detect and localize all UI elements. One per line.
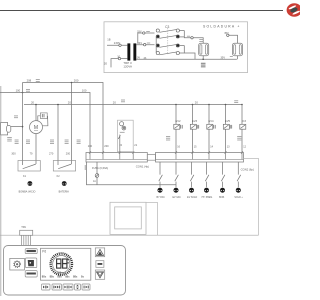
label SOLD + <box>234 197 243 199</box>
wire color label <box>26 140 30 144</box>
harness wire to panel <box>0 234 259 236</box>
wire label 14 <box>210 145 213 148</box>
junction node <box>57 104 59 106</box>
wire bus 208/200 <box>23 83 104 153</box>
svg-text:88s: 88s <box>50 275 55 279</box>
wire color label <box>15 140 19 144</box>
value label 35V <box>221 56 226 60</box>
svg-text:88s: 88s <box>73 275 78 279</box>
svg-text:200: 200 <box>66 152 71 156</box>
wire color label <box>36 79 40 82</box>
wire drop 270 <box>57 105 59 161</box>
logo <box>287 3 302 17</box>
svg-text:BOB.: BOB. <box>219 197 225 199</box>
weld bar resistor 2 <box>233 43 243 56</box>
svg-text:270: 270 <box>49 152 54 156</box>
label SOLDADURA + <box>203 25 241 29</box>
capacitor C motor <box>38 113 48 126</box>
connector bridge <box>147 155 155 161</box>
output switch BY PAC <box>159 162 163 187</box>
svg-text:CON1 (4p): CON1 (4p) <box>136 165 149 169</box>
connector TPA <box>20 230 33 245</box>
wire label 21 <box>134 143 137 147</box>
connector terminal HT PRES <box>204 188 209 193</box>
pressure switch unit box <box>118 120 134 152</box>
wire weld bar 2 to 0V <box>237 56 239 60</box>
wire label 270 <box>49 152 54 156</box>
junction node <box>22 126 24 128</box>
wire secondary 0V common <box>136 58 237 60</box>
contactor label C3 <box>165 25 169 29</box>
wire color label <box>77 140 81 144</box>
pin terminal <box>191 37 193 39</box>
pin terminal primary bottom <box>118 57 120 59</box>
wire label 12 <box>243 145 246 148</box>
contactor C3 contacts <box>156 28 179 55</box>
wire label 100 <box>82 88 87 92</box>
svg-text:BATERIA: BATERIA <box>59 190 70 193</box>
wire label 208 <box>27 79 32 83</box>
svg-text:EV SOLD: EV SOLD <box>187 197 197 199</box>
component label <box>7 137 12 141</box>
wire label 200 <box>66 152 71 156</box>
svg-text:1A: 1A <box>93 180 96 183</box>
svg-text:300: 300 <box>11 152 16 156</box>
wire label 20 <box>68 101 72 105</box>
wire label 20 <box>31 101 35 105</box>
svg-text:20: 20 <box>113 100 117 104</box>
connector terminal bateria <box>62 181 67 186</box>
pin label 1B <box>107 37 110 41</box>
pin terminal soldadura <box>227 34 229 36</box>
solenoid valve EV5 <box>223 104 231 153</box>
svg-text:100: 100 <box>82 88 87 92</box>
wire drop 200 <box>71 83 73 161</box>
wire C3 to weld bar 1 <box>179 31 203 44</box>
svg-text:20: 20 <box>31 101 35 105</box>
svg-text:0V: 0V <box>137 56 140 60</box>
svg-text:100: 100 <box>88 144 93 148</box>
svg-text:SOLD +: SOLD + <box>234 197 243 199</box>
svg-text:C3: C3 <box>242 119 246 123</box>
weld bar resistor 1 <box>199 43 209 56</box>
value label 35V <box>224 31 229 35</box>
connector terminal bomba <box>28 181 33 186</box>
page left border <box>0 86 2 296</box>
wire label 200 <box>104 144 109 148</box>
label TPA <box>21 225 26 229</box>
label BATERIA <box>59 190 70 193</box>
value label 230V <box>114 41 121 45</box>
wire label 100 <box>16 89 21 93</box>
connector terminal EV VAC <box>174 188 179 193</box>
terminal strip CON2 <box>156 151 244 162</box>
junction <box>202 58 204 60</box>
fuse rating label <box>93 180 96 183</box>
wire C3 lower pole to 0V <box>179 46 195 60</box>
value label 24V <box>138 41 143 45</box>
svg-text:SOLDADURA +: SOLDADURA + <box>203 25 241 29</box>
pressure switch sensor <box>118 122 126 139</box>
label C3 <box>242 119 246 123</box>
junction node 100 <box>22 92 24 94</box>
pin terminal secondary 33V <box>143 32 145 34</box>
button ok <box>96 261 104 268</box>
wire bus 100 <box>0 93 90 153</box>
svg-text:200: 200 <box>104 144 109 148</box>
contactor coil C3 <box>240 104 246 153</box>
svg-text:TPA: TPA <box>21 225 26 229</box>
label EV4 <box>208 119 214 123</box>
gauge dial <box>51 253 72 274</box>
svg-text:33V: 33V <box>137 29 142 33</box>
wire label 100 <box>88 144 93 148</box>
svg-text:CON2 (6p): CON2 (6p) <box>241 167 254 171</box>
wire motor feed <box>35 105 37 121</box>
node label 20 <box>104 61 108 65</box>
wire color label <box>65 140 69 144</box>
control panel TP <box>4 246 126 296</box>
wire bus 20 <box>24 104 242 106</box>
vacuum chamber lid <box>110 202 146 234</box>
pin label 10 <box>117 54 120 58</box>
terminal strip CON1 <box>86 151 147 162</box>
display window <box>41 248 91 280</box>
svg-text:20: 20 <box>195 100 199 104</box>
svg-text:100: 100 <box>16 89 21 93</box>
svg-text:24V: 24V <box>138 41 143 45</box>
value label 0V <box>137 56 140 60</box>
wire label 79 <box>30 152 33 156</box>
svg-text:208: 208 <box>27 79 32 83</box>
relay contact K1 <box>18 161 40 172</box>
label BOMBA VACIO <box>19 190 36 193</box>
output switch SOLD <box>237 162 241 187</box>
wire color label <box>14 116 18 119</box>
button VAC <box>25 258 36 268</box>
output switch HT PRES <box>205 162 209 187</box>
transformer TRP3 <box>127 43 136 60</box>
wire label 200 <box>74 79 79 83</box>
solenoid valve EV2 <box>174 104 182 153</box>
svg-text:88s: 88s <box>42 275 47 279</box>
label CON1 (4p) <box>136 165 149 169</box>
svg-text:C3: C3 <box>165 25 169 29</box>
value label 33V <box>137 29 142 33</box>
svg-text:20: 20 <box>68 101 72 105</box>
svg-text:88s: 88s <box>65 275 70 279</box>
button PROG <box>25 249 37 254</box>
button up <box>95 248 104 257</box>
button lid <box>75 284 81 290</box>
motor M1 <box>30 121 43 134</box>
button STOP <box>25 271 37 277</box>
svg-text:1B: 1B <box>107 37 110 41</box>
button start <box>82 284 90 290</box>
wire label 22 <box>119 143 122 147</box>
button power <box>10 258 25 270</box>
svg-text:120VA: 120VA <box>123 65 132 69</box>
label BOB <box>219 197 225 199</box>
output switch EV VAC <box>175 162 179 187</box>
wire secondary 24V <box>136 44 154 46</box>
wire drop 300 <box>22 83 24 161</box>
CON2 boundary box <box>146 159 259 236</box>
rotated wire label <box>84 165 87 170</box>
wire return <box>87 162 177 185</box>
svg-text:EV5: EV5 <box>225 119 231 123</box>
junction node <box>35 104 37 106</box>
value label TRP 3 120VA <box>123 61 132 68</box>
wire primary 0 <box>111 59 127 68</box>
wire color label <box>234 100 238 103</box>
wire label 15 <box>194 145 197 148</box>
svg-text:EV3: EV3 <box>192 119 198 123</box>
button vacuum cycle <box>42 284 51 290</box>
svg-text:888max: 888max <box>57 271 66 274</box>
wire color label <box>50 140 54 144</box>
button down <box>95 270 104 279</box>
button gas cycle <box>63 284 73 290</box>
solenoid valve EV3 <box>190 104 198 153</box>
relay label K1 <box>23 175 27 178</box>
svg-text:M: M <box>34 125 38 131</box>
wire color label <box>121 100 125 103</box>
wire color label <box>201 63 206 68</box>
relay contact K2 <box>53 161 75 172</box>
svg-text:20: 20 <box>104 61 108 65</box>
wire color label <box>26 89 30 92</box>
label Pd <box>42 250 46 254</box>
solenoid valve EV4 <box>207 104 215 153</box>
fuse FUS1 <box>95 162 99 185</box>
header rule <box>0 10 283 12</box>
svg-text:230V: 230V <box>114 41 121 45</box>
svg-text:HT. PRES.: HT. PRES. <box>202 197 213 199</box>
wire tag <box>146 30 150 33</box>
pin terminal primary top <box>119 44 121 46</box>
wire color label <box>166 136 170 140</box>
svg-text:EV4: EV4 <box>208 119 214 123</box>
vacuum pump P1 <box>1 123 11 135</box>
wire primary 230V <box>107 44 127 46</box>
pin terminal secondary 24V <box>144 44 146 46</box>
junction node 200 <box>71 82 73 84</box>
svg-text:Pd: Pd <box>42 250 46 254</box>
label EV SOLD <box>187 197 197 199</box>
wire color label <box>199 39 203 42</box>
svg-text:35V: 35V <box>224 31 229 35</box>
label BY PAC <box>157 196 166 199</box>
wire label 16 <box>177 145 180 148</box>
pin label 4b <box>144 56 147 60</box>
wire label 20 <box>195 100 199 104</box>
label EV3 <box>192 119 198 123</box>
svg-text:BOMBA VACIO: BOMBA VACIO <box>19 190 36 193</box>
svg-text:BY PAC: BY PAC <box>157 196 166 199</box>
svg-text:88s: 88s <box>57 275 62 279</box>
svg-text:200: 200 <box>74 79 79 83</box>
wire color label <box>230 55 233 58</box>
svg-text:EV VAC: EV VAC <box>173 196 182 199</box>
wire weld bar 1 to 0V <box>202 56 204 60</box>
wire weld bar 2 top <box>228 35 238 43</box>
wire label 300 <box>11 152 16 156</box>
wire pump tap <box>11 126 23 128</box>
connector terminal SOLD <box>236 188 241 193</box>
wire color label <box>237 136 241 140</box>
wire label 13 <box>227 145 230 148</box>
label CON2 (6p) <box>241 167 254 171</box>
connector terminal BOB <box>220 188 225 193</box>
output switch EV SOLD <box>190 162 194 187</box>
wire label 20 <box>113 100 117 104</box>
svg-text:EV2: EV2 <box>175 119 181 123</box>
display legend row <box>42 275 85 279</box>
label HT PRES <box>202 197 213 199</box>
wire 22 to strip <box>119 135 121 153</box>
connector terminal BY PAC <box>158 188 163 193</box>
label FUS1 (0,63A) <box>92 166 108 170</box>
label EV2 <box>175 119 181 123</box>
relay label K2 <box>57 175 61 178</box>
button weld cycle <box>52 284 62 290</box>
svg-text:FUS1 (0,63A): FUS1 (0,63A) <box>92 166 108 170</box>
wire secondary 33V <box>138 33 155 43</box>
output switch BOB <box>221 162 225 187</box>
power unit enclosure box <box>104 22 248 73</box>
wire motor to contact K1 <box>35 134 37 161</box>
wire tag <box>147 42 150 45</box>
label EV5 <box>225 119 231 123</box>
svg-text:35V: 35V <box>221 56 226 60</box>
label EV VAC <box>173 196 182 199</box>
wire label <box>187 35 190 38</box>
connector terminal EV SOLD <box>189 188 194 193</box>
